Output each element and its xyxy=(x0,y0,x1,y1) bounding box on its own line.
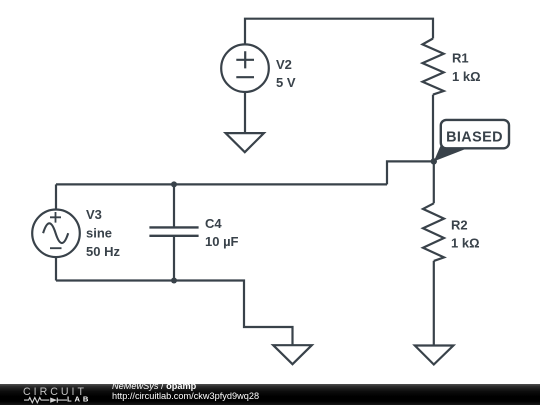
voltage source V2 xyxy=(221,44,269,92)
wire node BIASED step to left rail xyxy=(387,161,434,184)
svg-text:R1: R1 xyxy=(452,50,469,65)
CircuitLab logo xyxy=(0,384,110,405)
svg-text:sine: sine xyxy=(86,226,112,241)
wire top rail from V2 to R1 xyxy=(245,19,433,45)
capacitor C4 top lead xyxy=(173,184,175,227)
svg-text:1 kΩ: 1 kΩ xyxy=(452,69,481,84)
footer credit line xyxy=(112,381,196,391)
wire V2 negative to ground xyxy=(244,92,246,133)
svg-text:R2: R2 xyxy=(451,217,468,232)
ground (bottom middle) xyxy=(273,345,312,364)
svg-text:C4: C4 xyxy=(205,216,222,231)
junction node on middle rail at C4 xyxy=(171,181,177,187)
voltage source V3 (sine) xyxy=(32,210,80,258)
svg-text:BIASED: BIASED xyxy=(446,129,503,145)
junction node BIASED xyxy=(431,158,437,164)
capacitor C4 bottom lead xyxy=(173,236,175,281)
svg-text:LAB: LAB xyxy=(67,395,91,404)
svg-text:50 Hz: 50 Hz xyxy=(86,244,120,259)
footer bar xyxy=(0,384,540,405)
resistor R2 xyxy=(423,203,444,261)
ground (below V2) xyxy=(226,133,264,152)
wire bottom rail from V3 to ground xyxy=(56,281,293,346)
wire R2 top lead xyxy=(433,161,435,203)
capacitor C4 xyxy=(149,227,198,235)
svg-text:V2: V2 xyxy=(276,57,292,72)
node flag BIASED xyxy=(441,120,509,148)
resistor R1 xyxy=(423,39,444,95)
wire V3 top stub xyxy=(55,184,57,209)
node flag pointer BIASED xyxy=(434,144,468,162)
wire R1 bottom to node BIASED xyxy=(432,95,434,162)
svg-text:1 kΩ: 1 kΩ xyxy=(451,236,480,251)
wire middle rail to V3 xyxy=(56,183,387,185)
svg-text:10 µF: 10 µF xyxy=(205,234,239,249)
footer url line xyxy=(112,391,259,401)
junction node on bottom rail at C4 xyxy=(171,278,177,284)
svg-text:V3: V3 xyxy=(86,207,102,222)
ground (below R2) xyxy=(415,346,454,365)
wire R2 bottom to ground xyxy=(433,261,435,346)
svg-text:5 V: 5 V xyxy=(276,75,296,90)
wire V3 bottom stub xyxy=(55,257,57,281)
